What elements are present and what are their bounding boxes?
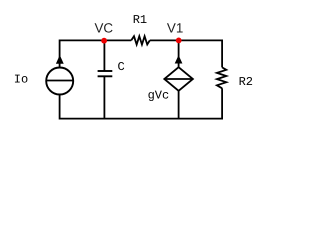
node VC junction dot (red) (101, 38, 107, 44)
wire: gVc top lead from node V1 (178, 40, 180, 67)
capacitor C top plate (98, 70, 113, 72)
dependent source gVc diamond (164, 67, 193, 91)
resistor R2 body (zigzag) (217, 67, 226, 88)
current source Io arrow (56, 55, 64, 64)
node V1 junction dot (red) (176, 38, 182, 44)
svg-text:gVc: gVc (148, 88, 170, 102)
wire: left branch top (corner to Io source) and top net left segment to R1 (60, 40, 132, 67)
dependent source gVc arrow (175, 55, 183, 63)
current source Io mid-line (46, 80, 73, 82)
resistor R1 body (zigzag) (131, 36, 150, 44)
capacitor C bottom plate (98, 75, 113, 77)
svg-text:VC: VC (95, 21, 114, 36)
svg-text:R2: R2 (239, 75, 253, 89)
svg-text:C: C (118, 60, 125, 74)
wire: capacitor C bottom lead to bottom net (103, 76, 105, 118)
svg-text:Io: Io (14, 73, 28, 87)
wire: top net right segment (R1 to top-right corner) and R2 top lead (150, 40, 222, 67)
wire: gVc bottom lead to bottom net (178, 91, 180, 119)
wire: R2 bottom lead, bottom net, Io bottom lead (60, 88, 223, 118)
svg-text:V1: V1 (167, 20, 183, 35)
current source Io circle (46, 68, 73, 95)
dependent source gVc mid-line (164, 78, 193, 80)
svg-text:R1: R1 (133, 13, 147, 27)
wire: capacitor C top lead from node VC (103, 40, 105, 71)
